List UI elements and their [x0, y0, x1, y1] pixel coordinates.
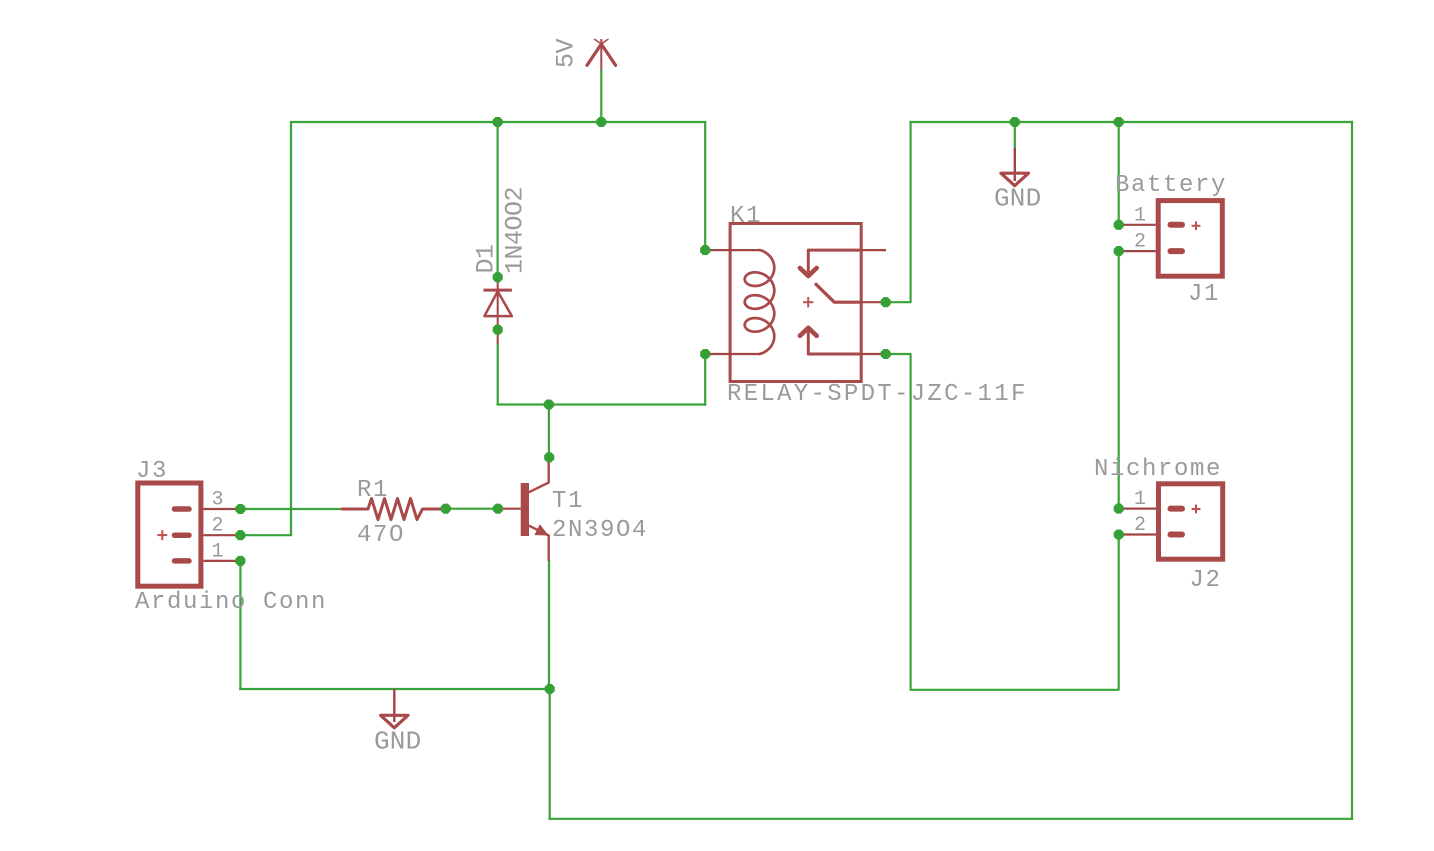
wire bottom rail — [549, 818, 1354, 820]
wire left vertical to J3 pin 2 — [290, 121, 292, 535]
junction top rail / J1 branch — [1114, 117, 1124, 127]
svg-text:2: 2 — [1134, 231, 1146, 254]
junction D1 anode pin — [493, 272, 503, 282]
wire T1 collector branch — [548, 404, 550, 459]
junction J3 pin 1 — [235, 556, 245, 566]
junction T1 base pin — [493, 504, 503, 514]
svg-text:3: 3 — [212, 488, 224, 511]
svg-text:D1: D1 — [472, 244, 501, 273]
junction relay coil pin 2 — [700, 349, 710, 359]
svg-text:Nichrome: Nichrome — [1094, 456, 1222, 483]
svg-text:2N39O4: 2N39O4 — [552, 517, 648, 544]
junction top rail / D1 — [493, 117, 503, 127]
wire relay NO to J2 pin 2 — [885, 354, 1119, 690]
svg-text:J3: J3 — [136, 458, 168, 485]
svg-text:2: 2 — [212, 514, 224, 537]
svg-text:Battery: Battery — [1115, 172, 1227, 199]
power 5V symbol — [587, 39, 616, 70]
junction J2 pin 2 — [1114, 529, 1124, 539]
wire D1 bottom — [497, 343, 499, 405]
connector J2 — [1119, 484, 1223, 559]
wire J3 pin2 to vertical — [239, 534, 292, 536]
junction relay common pin — [881, 297, 891, 307]
svg-text:1: 1 — [212, 540, 224, 563]
svg-text:RELAY-SPDT-JZC-11F: RELAY-SPDT-JZC-11F — [727, 381, 1028, 408]
resistor R1 — [342, 499, 446, 520]
wire x705 upper (top rail to coil pin 1) — [704, 121, 706, 251]
wire R1 to T1 base — [445, 508, 499, 510]
wire right rail — [1351, 121, 1353, 820]
junction D1 cathode pin — [493, 325, 503, 335]
junction J3 pin 2 — [235, 530, 245, 540]
connector J3 — [138, 483, 241, 586]
svg-text:J1: J1 — [1188, 281, 1220, 308]
svg-text:1: 1 — [1134, 488, 1146, 511]
diode D1 — [483, 277, 512, 343]
svg-text:R1: R1 — [357, 477, 389, 504]
svg-text:5V: 5V — [552, 38, 581, 68]
wire 5V stem — [600, 69, 602, 123]
junction relay NO pin — [881, 349, 891, 359]
wire J3 pin1 down — [239, 560, 241, 690]
wire top rail right — [909, 121, 1353, 123]
svg-text:1N4OO2: 1N4OO2 — [501, 187, 530, 274]
wire top rail left — [290, 121, 706, 123]
junction J1 pin 1 — [1114, 220, 1124, 230]
junction J3 pin 3 — [235, 504, 245, 514]
svg-text:GND: GND — [374, 727, 421, 757]
svg-text:47O: 47O — [357, 522, 405, 549]
relay K1 — [705, 224, 886, 382]
junction top rail / GND2 — [1010, 117, 1020, 127]
wire T1 emitter down — [548, 560, 550, 690]
wire D1 top branch — [497, 121, 499, 273]
svg-text:1: 1 — [1134, 204, 1146, 227]
svg-text:K1: K1 — [730, 203, 762, 230]
svg-text:2: 2 — [1134, 514, 1146, 537]
connector J1 — [1119, 201, 1223, 277]
svg-text:Arduino Conn: Arduino Conn — [135, 589, 327, 616]
wire junction down — [549, 688, 551, 820]
svg-text:GND: GND — [994, 184, 1041, 214]
wire bottom GND run — [239, 688, 551, 690]
transistor T1 — [499, 458, 549, 561]
junction R1 pin 2 — [441, 504, 451, 514]
junction bottom GND node — [545, 684, 555, 694]
junction node to T1 collector — [544, 399, 554, 409]
junction T1 collector pin — [544, 452, 554, 462]
junction J2 pin 1 — [1114, 504, 1124, 514]
svg-text:T1: T1 — [552, 488, 584, 515]
ground GND1 symbol — [381, 689, 408, 728]
wire horizontal D1-bottom to relay coil — [497, 403, 707, 405]
wire J3 pin3 to R1 — [239, 508, 343, 510]
wire x705 lower (coil pin 2 to node) — [704, 353, 706, 406]
wire relay common to top rail — [885, 122, 911, 302]
svg-text:J2: J2 — [1190, 567, 1222, 594]
wire top rail to J1 pin 1 — [1118, 121, 1120, 226]
junction relay coil pin 1 — [700, 245, 710, 255]
junction J1 pin 2 — [1114, 246, 1124, 256]
wire J1 pin2 to J2 pin1 — [1118, 250, 1120, 510]
ground GND2 symbol — [1001, 121, 1029, 186]
junction top rail / 5V — [596, 117, 606, 127]
